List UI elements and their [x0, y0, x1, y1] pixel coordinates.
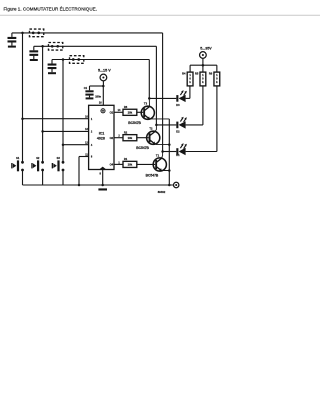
svg-text:D1: D1 — [176, 153, 180, 157]
svg-text:O1: O1 — [110, 111, 114, 115]
svg-text:O2: O2 — [110, 136, 114, 140]
svg-text:R6: R6 — [209, 72, 213, 76]
svg-text:T3: T3 — [144, 102, 148, 106]
svg-text:C1: C1 — [84, 86, 88, 90]
svg-text:T1: T1 — [156, 153, 160, 157]
svg-text:10k: 10k — [128, 136, 133, 140]
svg-text:100n: 100n — [95, 95, 101, 99]
svg-text:S2: S2 — [36, 156, 40, 160]
svg-text:5...15 V: 5...15 V — [98, 69, 111, 73]
svg-text:10k: 10k — [128, 110, 133, 114]
svg-text:Figure 1. COMMUTATEUR ÉLECTRON: Figure 1. COMMUTATEUR ÉLECTRONIQUE. — [4, 6, 98, 12]
svg-text:S1: S1 — [16, 156, 20, 160]
svg-text:BC547B: BC547B — [146, 173, 159, 177]
svg-text:R4: R4 — [182, 72, 186, 76]
svg-text:5...35V: 5...35V — [200, 47, 212, 51]
svg-text:S3: S3 — [57, 156, 61, 160]
svg-text:R1: R1 — [124, 157, 128, 161]
svg-text:BC547B: BC547B — [128, 121, 141, 125]
svg-text:89462: 89462 — [158, 190, 166, 194]
svg-text:O4: O4 — [110, 163, 114, 167]
svg-text:4028: 4028 — [97, 136, 105, 140]
svg-text:R3: R3 — [124, 105, 128, 109]
svg-text:BC547B: BC547B — [136, 146, 149, 150]
svg-text:IC1: IC1 — [99, 131, 105, 135]
svg-text:R5: R5 — [195, 72, 199, 76]
svg-text:R2: R2 — [124, 130, 128, 134]
svg-text:D3: D3 — [176, 103, 180, 107]
svg-text:D2: D2 — [176, 130, 180, 134]
svg-text:T2: T2 — [149, 127, 153, 131]
svg-text:10k: 10k — [128, 163, 133, 167]
